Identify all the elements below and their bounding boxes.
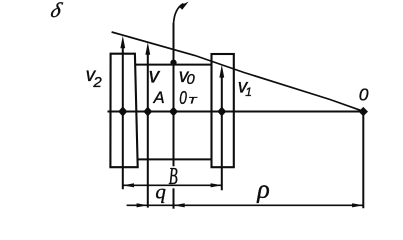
- svg-text:T: T: [188, 96, 199, 106]
- curved arrowhead: [179, 2, 189, 10]
- B dim left arrowhead: [123, 183, 134, 187]
- v2 arrow shaft: [122, 42, 124, 189]
- curved recoil arrow: [174, 4, 184, 24]
- svg-text:1: 1: [245, 85, 252, 99]
- svg-text:q: q: [155, 180, 166, 204]
- node diamond Ot: [169, 107, 178, 117]
- rho right arrowhead: [352, 203, 363, 207]
- B dim right arrowhead: [211, 183, 222, 187]
- svg-text:ρ: ρ: [256, 174, 269, 203]
- O vertical extension: [362, 112, 364, 209]
- band top edge: [135, 64, 211, 66]
- v0 / Ot vertical line: [173, 23, 175, 166]
- v arrow shaft / A extension: [147, 49, 149, 208]
- svg-text:δ: δ: [48, 0, 65, 22]
- q/rho shared arrowhead: [174, 203, 185, 207]
- v0 line lower extension: [173, 188, 175, 208]
- right block: [212, 54, 234, 167]
- diagonal trajectory line: [112, 32, 364, 111]
- v1 arrow shaft: [221, 71, 223, 190]
- q dim left arrowhead: [137, 203, 148, 207]
- B dimension line: [123, 184, 222, 186]
- dot on band top edge: [170, 60, 176, 66]
- svg-text:0: 0: [179, 88, 187, 108]
- svg-text:0: 0: [187, 71, 196, 88]
- svg-text:2: 2: [92, 74, 102, 91]
- svg-text:0: 0: [359, 85, 369, 105]
- left block: [110, 54, 137, 168]
- band bottom edge: [137, 158, 211, 160]
- node diamond v1: [217, 107, 226, 117]
- node diamond on v2: [118, 106, 127, 116]
- axis centerline: [108, 111, 364, 113]
- q and rho dimension line: [127, 204, 364, 206]
- svg-text:v: v: [149, 65, 161, 88]
- svg-text:A: A: [153, 89, 165, 107]
- v arrowhead: [145, 42, 150, 55]
- v2 arrowhead: [120, 36, 125, 49]
- v1 arrowhead: [219, 65, 224, 78]
- node diamond O: [359, 107, 368, 116]
- svg-text:В: В: [169, 164, 178, 190]
- node diamond A: [143, 107, 152, 117]
